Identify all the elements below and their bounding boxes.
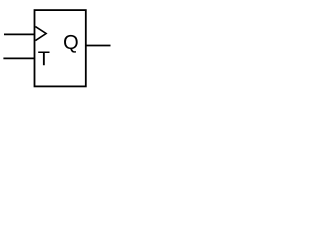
flip-flop body rectangle: [35, 10, 86, 86]
pin label Q: [64, 35, 78, 53]
T flip-flop U1: [0, 0, 120, 99]
pin label T: [38, 51, 49, 65]
clock input wire: [4, 33, 35, 35]
clock edge-trigger chevron: [35, 27, 46, 41]
T input wire: [3, 57, 34, 59]
Q output wire: [86, 45, 111, 47]
